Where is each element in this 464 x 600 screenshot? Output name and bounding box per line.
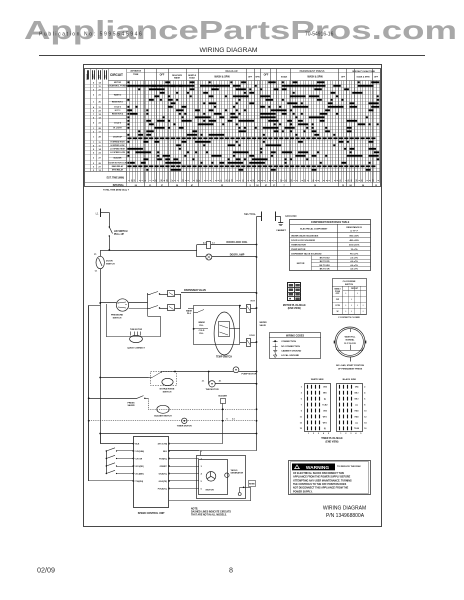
svg-text:LID SWITCH: LID SWITCH	[114, 231, 128, 233]
svg-text:EST. TIME (MIN): EST. TIME (MIN)	[107, 178, 125, 180]
svg-text:HI SPEED LOW: HI SPEED LOW	[111, 145, 125, 147]
svg-text:27: 27	[98, 166, 101, 168]
svg-text:•: •	[345, 310, 346, 313]
svg-text:CW: CW	[336, 299, 339, 301]
svg-text:OR4: OR4	[323, 409, 327, 412]
svg-text:•: •	[357, 292, 358, 295]
svg-text:11: 11	[300, 416, 302, 418]
svg-text:RESISTOR 4: RESISTOR 4	[112, 113, 124, 116]
svg-text:2/1.5(RD): 2/1.5(RD)	[135, 466, 144, 468]
svg-text:BUZZER: BUZZER	[218, 396, 227, 398]
svg-text:W: W	[337, 311, 339, 313]
svg-text:1: 1	[93, 137, 95, 139]
svg-text:BUZZER SWITCH: BUZZER SWITCH	[154, 415, 172, 417]
svg-text:THE CONTROLS TO THE OFF POSITI: THE CONTROLS TO THE OFF POSITION DOES	[293, 483, 347, 486]
svg-text:1: 1	[340, 433, 341, 435]
svg-text:SWITCH: SWITCH	[106, 264, 115, 266]
svg-text:4: 4	[364, 392, 366, 395]
svg-text:2: 2	[329, 180, 331, 181]
svg-text:•: •	[363, 304, 364, 307]
svg-text:1: 1	[240, 180, 242, 181]
svg-text:LO SPEED HIGH: LO SPEED HIGH	[110, 149, 125, 151]
svg-text:T3-BU: T3-BU	[354, 428, 360, 430]
svg-text:MOTOR PLUG-MALE: MOTOR PLUG-MALE	[283, 304, 306, 307]
svg-text:BLU: BLU	[163, 451, 168, 453]
svg-text:WASH: WASH	[174, 77, 181, 80]
svg-text:14: 14	[364, 421, 367, 424]
svg-text:9: 9	[93, 123, 95, 125]
svg-text:5: 5	[328, 433, 329, 435]
svg-text:1: 1	[142, 180, 144, 181]
svg-text:REGULAR: REGULAR	[225, 70, 237, 73]
svg-text:8: 8	[378, 180, 380, 181]
svg-text:NOT DISCONNECT THIS APPLIANCE: NOT DISCONNECT THIS APPLIANCE FROM THE	[293, 487, 349, 490]
svg-text:Y-CONTACTS CLOSED: Y-CONTACTS CLOSED	[338, 316, 360, 319]
svg-text:MAIN RELAY: MAIN RELAY	[112, 165, 124, 168]
svg-text:SAVER: SAVER	[127, 404, 135, 407]
svg-text:9: 9	[259, 180, 261, 181]
svg-text:•: •	[351, 298, 352, 301]
svg-text:MOTOR: MOTOR	[114, 82, 122, 84]
svg-text:5: 5	[201, 481, 203, 483]
svg-text:TIMER MOTOR: TIMER MOTOR	[291, 244, 306, 246]
svg-text:16: 16	[362, 180, 364, 182]
svg-text:17: 17	[221, 180, 223, 182]
svg-text:27: 27	[98, 89, 101, 91]
svg-text:8: 8	[364, 404, 365, 406]
svg-text:18: 18	[166, 180, 168, 182]
svg-text:6: 6	[337, 180, 339, 181]
svg-text:WASH & SPIN: WASH & SPIN	[214, 75, 230, 78]
svg-text:DOOR MOTOR CCW: DOOR MOTOR CCW	[108, 163, 126, 165]
svg-text:SWITCH: SWITCH	[113, 317, 122, 319]
svg-text:7: 7	[150, 180, 152, 181]
svg-text:4: 4	[93, 106, 95, 109]
svg-text:DISPENSER VALVE: DISPENSER VALVE	[184, 289, 206, 292]
svg-text:TOTAL TIME (MIN) 94 (L) T: TOTAL TIME (MIN) 94 (L) T	[103, 188, 130, 191]
svg-text:TIMER: TIMER	[87, 73, 89, 80]
svg-text:MOTOR: MOTOR	[297, 263, 305, 265]
svg-text:OF PERMANENT PRESS: OF PERMANENT PRESS	[338, 367, 363, 370]
svg-text:12: 12	[98, 117, 101, 119]
svg-text:WIRING DIAGRAM: WIRING DIAGRAM	[200, 47, 258, 54]
svg-text:7: 7	[177, 180, 179, 181]
svg-text:6: 6	[335, 180, 337, 181]
svg-text:4: 4	[271, 179, 274, 181]
svg-text:THAT ARE NOT IN ALL MODELS.: THAT ARE NOT IN ALL MODELS.	[191, 514, 227, 517]
svg-text:BK 2: BK 2	[355, 393, 359, 395]
svg-text:ATTEMPTING ANY USER MAINTENANC: ATTEMPTING ANY USER MAINTENANCE. TURNING	[293, 479, 352, 482]
svg-text:5: 5	[248, 180, 250, 181]
svg-text:WH/BK: WH/BK	[249, 484, 255, 486]
svg-text:2.1: 2.1	[202, 381, 205, 383]
svg-text:12: 12	[280, 180, 282, 182]
svg-text:15: 15	[313, 180, 315, 182]
svg-text:T3-BU: T3-BU	[322, 404, 328, 406]
svg-text:POWER SUPPLY.: POWER SUPPLY.	[293, 490, 313, 493]
svg-text:P/N 134968800A: P/N 134968800A	[326, 513, 365, 519]
svg-text:GN-E(YL): GN-E(YL)	[159, 474, 168, 476]
svg-text:15: 15	[348, 180, 350, 182]
svg-text:4: 4	[201, 473, 203, 476]
svg-text:•: •	[345, 292, 346, 295]
svg-text:COLD 2: COLD 2	[114, 107, 121, 109]
svg-text:6: 6	[261, 180, 263, 181]
svg-text:8: 8	[324, 180, 326, 181]
svg-text:LO SPEED LOW: LO SPEED LOW	[110, 152, 125, 154]
svg-text:SOAK: SOAK	[189, 77, 195, 80]
svg-text:P1: P1	[94, 254, 96, 256]
svg-text:4: 4	[93, 116, 95, 119]
svg-text:MOTOR: MOTOR	[206, 490, 215, 492]
svg-text:WH 1: WH 1	[323, 422, 327, 424]
svg-text:1: 1	[201, 451, 203, 453]
svg-text:10: 10	[131, 180, 133, 182]
svg-text:LOCAL GROUND: LOCAL GROUND	[281, 354, 299, 357]
svg-text:3: 3	[301, 393, 302, 395]
svg-text:15: 15	[229, 180, 231, 182]
svg-text:9: 9	[301, 410, 302, 412]
svg-text:(L): (L)	[324, 399, 327, 401]
svg-text:14: 14	[355, 179, 358, 182]
svg-text:EXTRA RINSE: EXTRA RINSE	[160, 388, 175, 391]
svg-text:DOOR LOCK COIL: DOOR LOCK COIL	[227, 241, 249, 244]
svg-text:WIRING DIAGRAM: WIRING DIAGRAM	[323, 505, 366, 511]
svg-text:5: 5	[175, 180, 177, 181]
svg-text:18: 18	[161, 180, 163, 182]
svg-text:OFF: OFF	[341, 76, 346, 78]
svg-text:SW: SW	[99, 75, 101, 78]
svg-text:SWITCH: SWITCH	[345, 284, 354, 286]
svg-text:•: •	[363, 310, 364, 313]
svg-text:2/1.4(BK): 2/1.4(BK)	[135, 473, 144, 476]
svg-text:CCW: CCW	[335, 305, 340, 307]
svg-text:4: 4	[355, 432, 356, 435]
svg-text:4.6 ±7%: 4.6 ±7%	[350, 260, 358, 263]
svg-text:HI SPEED HIGH: HI SPEED HIGH	[110, 142, 125, 144]
svg-text:2: 2	[297, 180, 299, 181]
svg-text:2: 2	[93, 110, 95, 112]
svg-text:WASH & SPIN: WASH & SPIN	[307, 75, 323, 78]
svg-text:BK TO BU: BK TO BU	[320, 258, 330, 260]
svg-text:4.4: 4.4	[203, 242, 206, 245]
svg-text:5: 5	[360, 433, 361, 435]
svg-text:OR/NPC: OR/NPC	[160, 466, 168, 468]
svg-text:SPECIALTY SOAK TUMB: SPECIALTY SOAK TUMB	[352, 70, 375, 73]
svg-text:3150 ±15%: 3150 ±15%	[349, 244, 360, 246]
svg-text:2: 2	[93, 95, 95, 97]
svg-text:WATER VALVE SOLENOIDS: WATER VALVE SOLENOIDS	[291, 234, 319, 237]
svg-text:7: 7	[301, 404, 302, 406]
svg-text:SPEED CONTROL UNIT: SPEED CONTROL UNIT	[138, 512, 165, 515]
svg-text:NO LOAD, START POSITION: NO LOAD, START POSITION	[336, 364, 365, 367]
svg-text:1: 1	[207, 180, 209, 181]
svg-text:COUNTERCL POWER: COUNTERCL POWER	[108, 86, 128, 88]
svg-text:2: 2	[237, 180, 239, 181]
svg-text:2: 2	[307, 180, 309, 181]
svg-text:1: 1	[145, 180, 147, 181]
svg-text:DOOR UP: DOOR UP	[113, 136, 123, 138]
svg-text:5: 5	[188, 180, 190, 181]
svg-text:2: 2	[264, 180, 266, 181]
svg-text:8: 8	[318, 180, 320, 181]
svg-text:COLD 5: COLD 5	[114, 122, 121, 124]
svg-text:13: 13	[134, 180, 136, 182]
svg-text:RD/3: RD/3	[355, 410, 359, 412]
svg-text:WATER: WATER	[260, 321, 268, 324]
svg-text:2: 2	[93, 131, 95, 133]
svg-text:1: 1	[93, 102, 95, 104]
svg-text:CLOCKWISE: CLOCKWISE	[343, 281, 356, 283]
svg-text:TIMER MOTOR: TIMER MOTOR	[177, 426, 192, 428]
svg-text:PERMANENT PRESS: PERMANENT PRESS	[300, 70, 325, 73]
svg-text:14: 14	[231, 179, 234, 182]
svg-text:CIRCUIT: CIRCUIT	[351, 288, 359, 290]
svg-text:890 ±10%: 890 ±10%	[349, 235, 358, 237]
svg-text:FILL: FILL	[187, 313, 192, 315]
svg-text:TUB MOTOR: TUB MOTOR	[130, 329, 143, 331]
svg-text:TIMER PLUG-MALE: TIMER PLUG-MALE	[321, 437, 343, 440]
svg-text:WHITE SIDE: WHITE SIDE	[311, 379, 324, 381]
svg-text:P1N-E(YL): P1N-E(YL)	[158, 489, 168, 491]
svg-text:(L): (L)	[324, 428, 327, 430]
svg-text:2.6 ±7%: 2.6 ±7%	[350, 258, 358, 260]
svg-text:COMPONENT RESISTANCE TABLE: COMPONENT RESISTANCE TABLE	[311, 221, 350, 224]
svg-text:5: 5	[93, 166, 95, 168]
svg-text:28: 28	[98, 137, 101, 139]
svg-text:(L): (L)	[356, 422, 359, 424]
svg-text:11: 11	[242, 180, 244, 182]
svg-text:OR4: OR4	[355, 386, 359, 389]
svg-text:COLD: COLD	[199, 330, 205, 332]
svg-text:(END VIEW): (END VIEW)	[288, 308, 301, 310]
svg-text:4: 4	[203, 179, 206, 181]
svg-text:WH 1: WH 1	[323, 416, 327, 418]
svg-text:BUZZER: BUZZER	[114, 157, 122, 159]
svg-text:3: 3	[201, 466, 203, 468]
svg-text:BLK: BLK	[135, 444, 140, 446]
svg-text:13: 13	[300, 422, 302, 424]
svg-text:12 O'CLOCK: 12 O'CLOCK	[344, 343, 356, 345]
svg-text:OF ELECTRICAL SHOCK DISCONNECT: OF ELECTRICAL SHOCK DISCONNECT THIS	[293, 472, 344, 475]
svg-text:1: 1	[129, 180, 131, 181]
svg-text:6: 6	[364, 399, 365, 401]
svg-text:9: 9	[227, 419, 228, 421]
svg-text:11: 11	[99, 145, 102, 147]
svg-text:6: 6	[93, 82, 95, 84]
svg-text:2: 2	[313, 433, 314, 435]
svg-text:4.1: 4.1	[212, 242, 215, 245]
svg-text:C1: C1	[95, 271, 97, 273]
svg-text:14: 14	[98, 81, 101, 84]
svg-text:2: 2	[316, 180, 318, 181]
svg-text:4: 4	[138, 179, 141, 181]
svg-text:3: 3	[215, 180, 217, 181]
svg-text:NO: NO	[104, 75, 106, 78]
svg-text:GENERATOR: GENERATOR	[231, 472, 244, 475]
svg-text:12: 12	[364, 416, 366, 418]
svg-text:17: 17	[196, 180, 198, 182]
svg-text:23: 23	[98, 123, 101, 125]
svg-text:AppliancePartsPros.com: AppliancePartsPros.com	[24, 15, 457, 45]
svg-text:OFF: OFF	[336, 293, 341, 295]
svg-text:NO CONNECTION: NO CONNECTION	[281, 346, 300, 348]
svg-text:10: 10	[351, 180, 353, 182]
svg-text:BK TO RD: BK TO RD	[320, 261, 330, 263]
svg-text:INTERVAL: INTERVAL	[113, 184, 125, 187]
svg-text:OR4: OR4	[323, 386, 327, 389]
svg-text:BK 2: BK 2	[355, 399, 359, 401]
svg-text:PULL-UP: PULL-UP	[114, 234, 124, 236]
svg-text:02/09: 02/09	[37, 566, 55, 575]
svg-text:TO REDUCE THE RISK: TO REDUCE THE RISK	[337, 466, 361, 468]
svg-text:SPIN: SPIN	[255, 76, 260, 78]
svg-text:WARNING: WARNING	[306, 465, 329, 471]
svg-text:8: 8	[370, 180, 372, 181]
svg-text:23: 23	[98, 152, 101, 154]
svg-text:QUICK CONNECT: QUICK CONNECT	[127, 348, 145, 350]
svg-text:DOOR LOCK SOLENOID: DOOR LOCK SOLENOID	[291, 240, 315, 242]
svg-text:VALVE: VALVE	[260, 324, 267, 327]
svg-text:OFF: OFF	[374, 76, 379, 78]
svg-text:5: 5	[93, 152, 95, 154]
svg-text:FILL: FILL	[199, 325, 204, 327]
svg-text:(END VIEW): (END VIEW)	[326, 441, 339, 443]
svg-text:T30(WH): T30(WH)	[135, 481, 143, 483]
svg-text:8: 8	[229, 566, 233, 575]
svg-text:•: •	[345, 304, 346, 307]
svg-text:DOOR: DOOR	[106, 261, 113, 263]
svg-text:•: •	[351, 310, 352, 313]
svg-text:1: 1	[301, 387, 302, 389]
svg-text:5: 5	[301, 399, 302, 401]
svg-text:9: 9	[359, 180, 361, 181]
svg-text:6: 6	[194, 180, 196, 181]
svg-text:RD/3: RD/3	[355, 416, 359, 418]
svg-text:13: 13	[291, 180, 293, 182]
svg-text:2: 2	[93, 89, 95, 91]
svg-text:SPIN RELAY: SPIN RELAY	[112, 169, 124, 172]
svg-text:SWITCH: SWITCH	[163, 391, 172, 393]
svg-text:6: 6	[201, 489, 203, 491]
svg-text:13: 13	[305, 180, 307, 182]
svg-text:BLACK SIDE: BLACK SIDE	[343, 378, 357, 381]
svg-text:ADVANCE: ADVANCE	[130, 70, 141, 73]
svg-text:480 ±10%: 480 ±10%	[349, 239, 358, 242]
svg-text:DOOR LAMP: DOOR LAMP	[230, 254, 245, 257]
svg-text:OFF: OFF	[264, 74, 269, 77]
svg-text:PUMP MOTOR: PUMP MOTOR	[242, 374, 257, 376]
svg-text:12V GR: 12V GR	[135, 459, 142, 461]
svg-text:(L): (L)	[356, 404, 359, 406]
svg-text:•: •	[351, 304, 352, 307]
svg-text:CIRCUIT: CIRCUIT	[110, 73, 123, 77]
svg-text:SOAK & SPIN: SOAK & SPIN	[356, 75, 370, 78]
svg-text:3: 3	[275, 180, 277, 181]
svg-text:•: •	[357, 304, 358, 307]
svg-text:8: 8	[251, 180, 253, 181]
svg-text:1: 1	[294, 180, 296, 181]
svg-text:8: 8	[326, 180, 328, 181]
svg-text:9: 9	[269, 180, 271, 181]
svg-text:16: 16	[364, 428, 366, 430]
svg-text:CABINET GROUND: CABINET GROUND	[281, 350, 301, 353]
svg-text:27: 27	[98, 158, 101, 160]
svg-text:CABINET: CABINET	[276, 229, 286, 232]
svg-text:12: 12	[253, 180, 255, 182]
svg-text:TEMP SWITCH: TEMP SWITCH	[216, 357, 232, 359]
svg-text:17: 17	[199, 180, 201, 182]
svg-text:F10 ±7%: F10 ±7%	[350, 253, 358, 255]
svg-text:16: 16	[156, 180, 158, 182]
svg-text:26: 26	[98, 102, 101, 104]
svg-text:TIME: TIME	[133, 74, 139, 76]
svg-text:RESISTOR 1: RESISTOR 1	[112, 101, 123, 103]
svg-text:COLD: COLD	[249, 335, 255, 337]
svg-text:3: 3	[93, 158, 95, 160]
svg-text:15: 15	[286, 180, 288, 182]
svg-text:70-54916-16: 70-54916-16	[305, 32, 334, 38]
svg-text:4: 4	[93, 144, 95, 147]
svg-text:11: 11	[340, 180, 342, 182]
svg-text:21: 21	[98, 95, 101, 97]
svg-text:WARM: WARM	[198, 321, 205, 324]
svg-text:8: 8	[302, 180, 304, 181]
svg-text:17: 17	[172, 180, 174, 182]
svg-text:PRESSURE: PRESSURE	[111, 315, 124, 317]
svg-text:PRESS: PRESS	[127, 402, 135, 404]
svg-text:L1: L1	[96, 212, 99, 216]
svg-text:14: 14	[182, 179, 185, 182]
svg-text:9: 9	[164, 180, 166, 181]
svg-text:HOT 3: HOT 3	[115, 110, 121, 112]
svg-text:10: 10	[364, 410, 366, 412]
svg-text:4.1: 4.1	[232, 418, 235, 421]
svg-text:@ 77° F: @ 77° F	[350, 230, 358, 232]
svg-text:BK TO OR: BK TO OR	[320, 269, 330, 271]
svg-text:6: 6	[218, 180, 220, 181]
svg-text:FILL: FILL	[199, 333, 204, 335]
svg-text:WASH FILL: WASH FILL	[345, 336, 357, 339]
svg-text:17: 17	[98, 131, 101, 133]
svg-text:12V(GN4): 12V(GN4)	[135, 450, 144, 453]
svg-text:(TH 3CTN): (TH 3CTN)	[158, 444, 168, 446]
svg-text:15: 15	[300, 428, 302, 430]
svg-text:1: 1	[308, 433, 309, 435]
svg-text:6: 6	[153, 180, 155, 181]
svg-text:P1/N(YL): P1/N(YL)	[159, 459, 167, 461]
svg-text:16: 16	[226, 180, 228, 182]
svg-text:THE MOTOR: THE MOTOR	[205, 389, 219, 391]
svg-text:TACHO: TACHO	[231, 469, 238, 472]
svg-text:GROUND: GROUND	[285, 214, 297, 218]
svg-text:WASH 2: WASH 2	[114, 93, 121, 96]
svg-text:3: 3	[367, 180, 369, 181]
svg-text:OFF: OFF	[248, 76, 253, 78]
svg-text:23: 23	[98, 110, 101, 112]
svg-text:W. LIGHT: W. LIGHT	[113, 128, 122, 130]
svg-text:4: 4	[323, 432, 324, 435]
svg-text:NORMAL: NORMAL	[346, 339, 356, 342]
svg-text:3: 3	[350, 433, 351, 435]
svg-text:CONNECTION: CONNECTION	[281, 341, 296, 343]
svg-text:4.6 ±7%: 4.6 ±7%	[350, 268, 358, 271]
svg-text:BR1: BR1	[323, 393, 326, 395]
svg-text:7: 7	[283, 180, 285, 181]
svg-text:DISPENSER VALVE SOLENOID: DISPENSER VALVE SOLENOID	[291, 252, 322, 255]
svg-text:SOAK: SOAK	[281, 75, 288, 78]
svg-text:13: 13	[372, 180, 374, 182]
